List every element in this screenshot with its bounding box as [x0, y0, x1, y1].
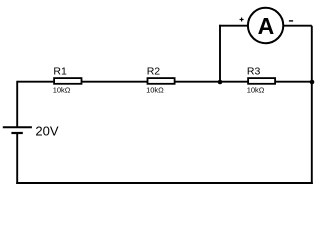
svg-text:R2: R2 [147, 65, 161, 77]
svg-text:10kΩ: 10kΩ [146, 86, 164, 95]
svg-text:R3: R3 [247, 65, 261, 77]
svg-text:10kΩ: 10kΩ [247, 86, 265, 95]
svg-text:A: A [258, 13, 275, 39]
svg-text:R1: R1 [53, 65, 67, 77]
svg-text:20V: 20V [35, 123, 58, 138]
svg-text:10kΩ: 10kΩ [53, 86, 71, 95]
